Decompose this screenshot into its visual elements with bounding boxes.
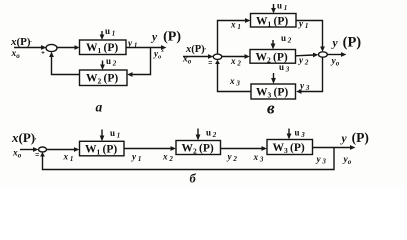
disturbance arrow u1 (b) [100,130,105,142]
block W1 (b) [80,141,125,156]
summing node N3 (b) [39,147,47,152]
svg-text:x 2: x 2 [162,152,173,164]
svg-text:yo: yo [331,57,340,68]
wire: W2 output feedback to summer (a) [52,56,80,75]
svg-text:u 2: u 2 [206,128,217,140]
arrowhead into W2 right side (a) [127,72,133,77]
svg-text:а: а [96,100,103,115]
svg-text:y 1: y 1 [131,152,141,164]
svg-text:y 2: y 2 [227,152,238,164]
disturbance arrow u2 (a) [100,61,105,71]
wire: node to W2 (v) [222,54,250,59]
wire: W2 output to node N2 (v) [296,53,319,58]
wire: input arrow into node (v) [183,54,213,59]
disturbance arrow u1 (a) [100,31,105,40]
wire: feedback from output down, left and up into node N3 (b) [43,148,335,170]
block W3 (v) [251,84,296,99]
svg-text:W1 (P): W1 (P) [86,42,118,55]
wire: W3 output left and up to node N1 (v) [218,64,252,92]
wire: summer to W1 (a) [57,45,80,50]
disturbance arrow u2 (v) [271,40,276,50]
block W2 (a) [80,70,128,86]
svg-text:W2 (P): W2 (P) [182,142,214,155]
svg-text:y 3: y 3 [299,81,310,93]
block W2 (v) [250,50,296,64]
svg-text:W1 (P): W1 (P) [85,143,117,156]
wire: input arrow into node N3 (b) [20,147,39,152]
disturbance arrow u3 (b) [287,129,292,140]
svg-text:x(P),: x(P), [185,44,206,55]
block W3 (b) [267,140,313,155]
block W2 (b) [176,141,221,155]
arrowhead into node N2 top (v) [320,47,325,52]
svg-text:u 1: u 1 [105,26,115,38]
svg-text:y 1: y 1 [127,38,137,50]
svg-text:б: б [190,172,197,186]
svg-text:u 1: u 1 [110,128,120,140]
svg-text:yo: yo [343,155,352,166]
svg-text:u 3: u 3 [295,128,306,140]
wire: W1 output to y (a) [126,45,167,50]
disturbance arrow u1 (v) [271,4,276,14]
wire: feedback tap down to W2 input (a) [132,48,151,75]
wire: node N2 down and left into W3 (v) [301,57,323,91]
svg-text:yox: yox [153,49,164,61]
wire: W1 to W2 (b) [124,146,176,151]
wire: W1 output right and down to node N2 (v) [296,21,323,48]
sign mark near node N1 (v) [209,62,213,64]
svg-text:u 2: u 2 [281,33,292,45]
sign mark near summer S1 (a) [42,51,45,54]
svg-text:y(P): y(P) [331,35,362,51]
svg-text:x 1: x 1 [63,152,74,164]
svg-text:W1 (P): W1 (P) [256,16,288,29]
summing node N2 (v) [319,52,328,57]
sign mark near node N3 (b) [36,154,40,156]
summing node N1 (v) [213,54,222,59]
wire: node up and right to W1 (v) [218,21,246,55]
wire: output arrow y (v) [327,52,346,57]
disturbance arrow u3 (v) [271,73,276,84]
svg-text:xo: xo [11,49,21,60]
svg-text:y 2: y 2 [298,55,309,67]
wire: node to W1 (b) [47,147,80,152]
svg-text:x 3: x 3 [229,76,240,88]
arrowhead into W3 right side (v) [296,89,302,94]
svg-text:y(P): y(P) [340,130,369,145]
arrowhead into W1 left (v) [245,18,251,23]
svg-text:x 3: x 3 [253,152,264,164]
svg-text:x 2: x 2 [230,56,241,68]
arrowhead into summer bottom (a) [49,52,54,57]
svg-text:x 1: x 1 [230,20,241,32]
svg-text:y(P): y(P) [150,30,181,45]
wire: input arrow into summer (a) [14,45,47,50]
svg-text:x(P).: x(P). [10,36,33,48]
svg-text:в: в [267,99,275,118]
wire: W3 output to y (b) [313,145,356,150]
svg-text:x(P),: x(P), [11,130,37,145]
block W1 (v) [251,14,297,28]
svg-text:u 2: u 2 [106,56,117,68]
svg-text:W2 (P): W2 (P) [86,73,118,86]
wire: W2 to W3 (b) [221,146,268,151]
svg-text:y 3: y 3 [316,154,327,166]
block W1 (a) [80,40,127,55]
svg-text:u 1: u 1 [277,1,287,13]
disturbance arrow u2 (b) [196,129,201,141]
arrowhead into node N1 bottom (v) [215,60,220,64]
summing junction S1 (a) [46,44,57,51]
svg-text:W3 (P): W3 (P) [273,142,305,155]
arrowhead into node N3 bottom (b) [40,152,45,157]
